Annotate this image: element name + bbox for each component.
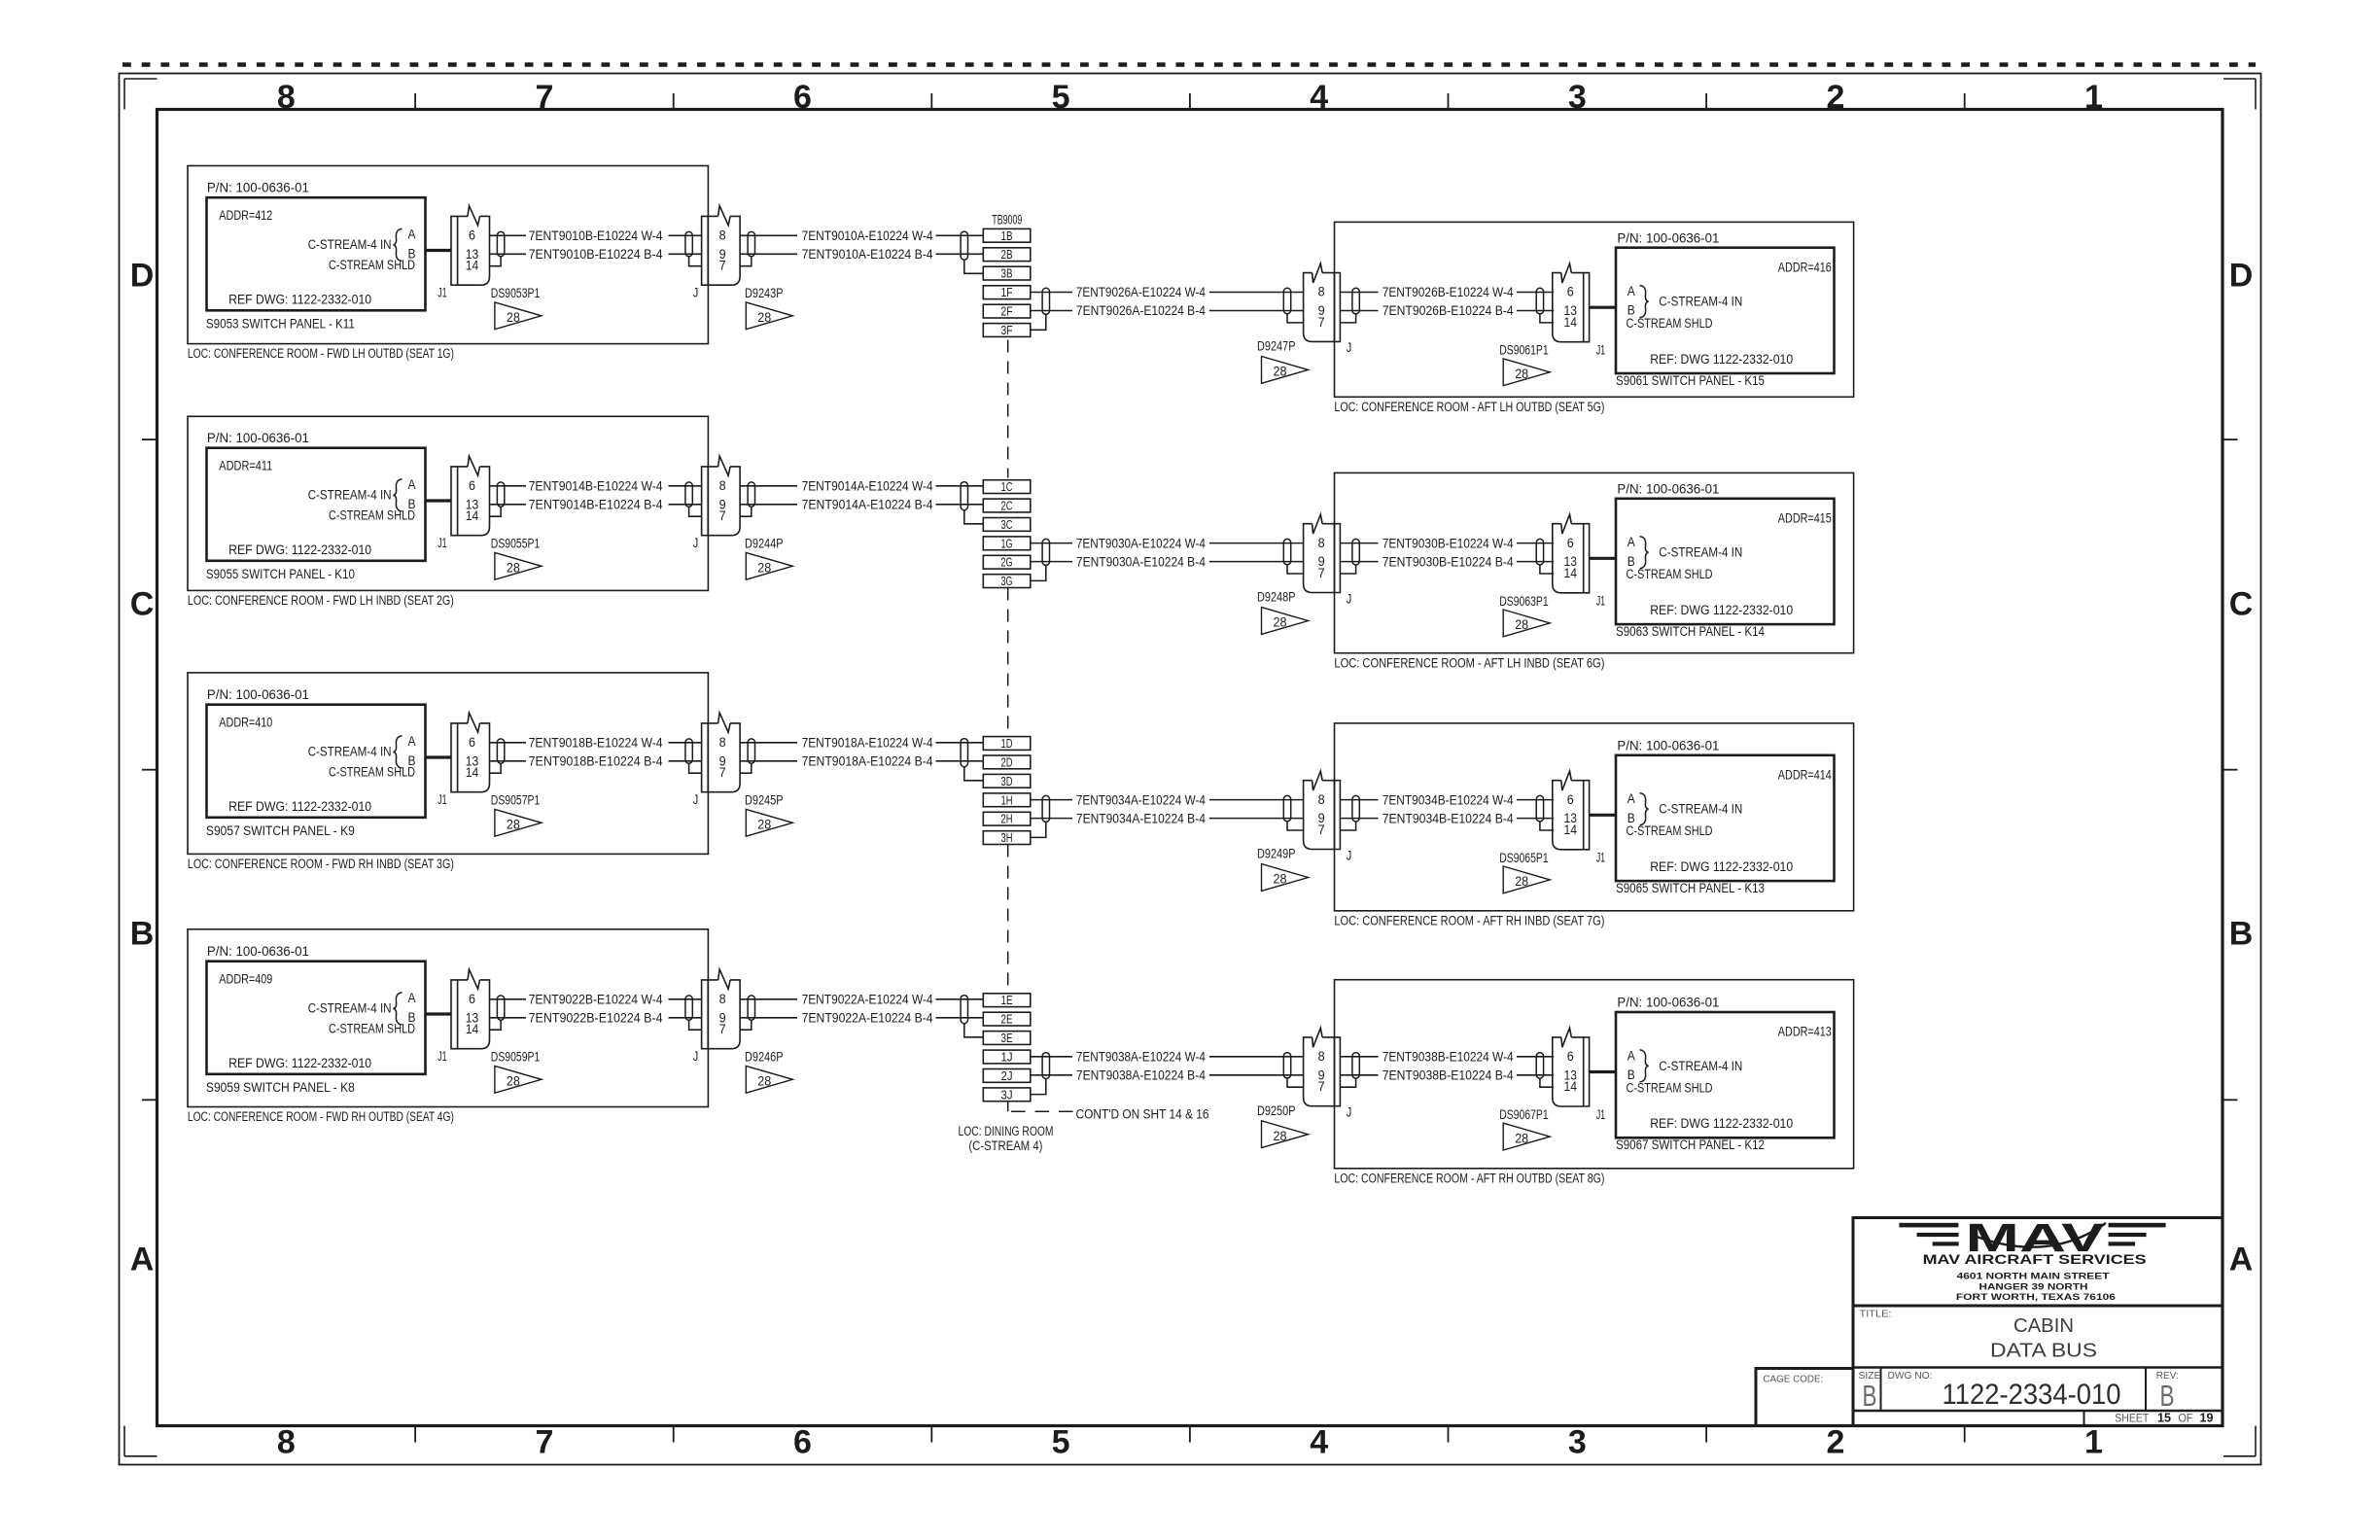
plug designator D9244P — [745, 537, 784, 551]
S9061 signal name C-STREAM SHLD — [1627, 316, 1713, 331]
svg-text:LOC: CONFERENCE ROOM - FWD RH: LOC: CONFERENCE ROOM - FWD RH INBD (SEAT… — [188, 857, 454, 871]
wire B-4 segment into terminal block — [936, 760, 984, 762]
row letters right — [2229, 258, 2254, 1278]
svg-text:J: J — [693, 1049, 699, 1064]
S9055 ref drawing label — [228, 542, 371, 557]
svg-text:7ENT9038A-E10224 B-4: 7ENT9038A-E10224 B-4 — [1076, 1068, 1206, 1083]
shield oval at terminal block (left side) — [961, 996, 967, 1024]
svg-text:P/N: 100-0636-01: P/N: 100-0636-01 — [207, 181, 309, 195]
wire 7ENT9038A-E10224 W-4 segment from terminal 1 — [1031, 1056, 1072, 1058]
svg-text:DS9057P1: DS9057P1 — [491, 793, 541, 808]
svg-text:14: 14 — [466, 259, 479, 273]
svg-text:1E: 1E — [1001, 994, 1013, 1007]
wire W-4 segment into J — [669, 234, 702, 236]
dashed bus trunk segment 1 (between 3F and 1C) — [1007, 340, 1009, 478]
wire B-4 segment into terminal block — [936, 1017, 984, 1019]
svg-text:7: 7 — [719, 765, 726, 780]
svg-text:1H: 1H — [1001, 793, 1013, 807]
corner crop mark top-left — [124, 79, 157, 110]
wire 7ENT9038B-E10224 B-4 segment from J — [1340, 1074, 1378, 1076]
S9067 address label ADDR=413 — [1778, 1025, 1832, 1039]
switch panel unit S9057 outline — [188, 673, 708, 855]
svg-text:28: 28 — [1515, 874, 1528, 889]
svg-text:J: J — [1347, 591, 1352, 606]
svg-text:7ENT9034B-E10224 W-4: 7ENT9034B-E10224 W-4 — [1382, 792, 1514, 807]
switch panel unit S9061 outline — [1335, 222, 1854, 397]
svg-text:C-STREAM SHLD: C-STREAM SHLD — [1627, 1080, 1713, 1095]
wire label 7ENT9014B-E10224 B-4 — [529, 498, 663, 512]
svg-text:7: 7 — [1318, 566, 1325, 580]
svg-text:7ENT9022B-E10224 B-4: 7ENT9022B-E10224 B-4 — [529, 1011, 663, 1026]
rev cell divider — [2145, 1368, 2147, 1412]
svg-text:4: 4 — [1310, 1424, 1328, 1461]
svg-text:7ENT9010A-E10224 B-4: 7ENT9010A-E10224 B-4 — [802, 247, 933, 262]
svg-text:14: 14 — [466, 1022, 479, 1036]
zone numbers bottom — [277, 1424, 2103, 1461]
svg-text:DATA BUS: DATA BUS — [1990, 1340, 2097, 1361]
svg-text:8: 8 — [719, 992, 726, 1006]
shield drain hook from J pin 7 — [1340, 565, 1355, 574]
wire label 7ENT9038B-E10224 W-4 — [1382, 1050, 1514, 1065]
connector J1 (DS9053P1) of S9053 — [451, 206, 490, 286]
svg-text:7: 7 — [535, 79, 553, 116]
S9053 ref drawing label — [228, 293, 371, 307]
svg-text:28: 28 — [757, 561, 771, 576]
svg-text:6: 6 — [793, 79, 812, 116]
shield drain hook pin 14 of J1 — [490, 507, 501, 516]
S9053 signal name C-STREAM SHLD — [329, 258, 415, 272]
shield oval at terminal block (left side) — [961, 739, 967, 767]
svg-text:7ENT9018B-E10224 W-4: 7ENT9018B-E10224 W-4 — [529, 736, 663, 751]
svg-text:C-STREAM SHLD: C-STREAM SHLD — [329, 1022, 415, 1036]
plug designator D9246P — [745, 1050, 784, 1065]
shield drain hook into terminal 3 — [964, 767, 984, 781]
wire label 7ENT9038A-E10224 B-4 — [1076, 1068, 1206, 1083]
svg-text:28: 28 — [1274, 615, 1287, 630]
shield oval left of J — [1283, 539, 1290, 564]
svg-text:3F: 3F — [1001, 324, 1013, 337]
wire label 7ENT9022B-E10224 B-4 — [529, 1011, 663, 1026]
connector J (D9247P) of S9061 — [1304, 263, 1341, 341]
connector J designator — [1347, 591, 1352, 606]
svg-text:S9065 SWITCH PANEL - K13: S9065 SWITCH PANEL - K13 — [1616, 881, 1765, 895]
S9061 name label — [1616, 373, 1765, 388]
plug designator D9247P — [1257, 339, 1296, 354]
svg-text:D9247P: D9247P — [1257, 339, 1296, 354]
svg-text:14: 14 — [1564, 315, 1578, 330]
svg-text:ADDR=415: ADDR=415 — [1778, 510, 1832, 525]
svg-text:A: A — [1627, 791, 1635, 806]
shield drain hook from J pin 7 — [1340, 1078, 1355, 1087]
plug designator D9249P — [1257, 847, 1296, 861]
wire label 7ENT9034B-E10224 W-4 — [1382, 792, 1514, 807]
connector J1 designator — [437, 792, 447, 807]
svg-text:LOC: CONFERENCE ROOM - FWD RH: LOC: CONFERENCE ROOM - FWD RH OUTBD (SEA… — [188, 1109, 454, 1124]
connector J1 (DS9067P1) of S9067 — [1553, 1028, 1590, 1106]
svg-text:ADDR=411: ADDR=411 — [219, 458, 272, 472]
wire B-4 segment into J — [669, 760, 702, 762]
svg-text:DS9059P1: DS9059P1 — [491, 1050, 541, 1065]
svg-text:S9053 SWITCH PANEL - K11: S9053 SWITCH PANEL - K11 — [206, 317, 355, 332]
svg-text:D9246P: D9246P — [745, 1050, 784, 1065]
plug designator DS9067P1 — [1499, 1107, 1549, 1122]
switch panel unit S9059 outline — [188, 929, 708, 1107]
wire B-4 segment into J plug — [1209, 818, 1304, 820]
S9053 bundled pair stub wire — [426, 249, 452, 252]
svg-text:1F: 1F — [1001, 286, 1013, 299]
shield drain hook from J pin 7 to cable — [740, 763, 752, 773]
S9065 node B — [1627, 811, 1635, 825]
S9055 address label ADDR=411 — [219, 458, 272, 472]
svg-text:7ENT9038A-E10224 W-4: 7ENT9038A-E10224 W-4 — [1076, 1050, 1206, 1065]
shield drain hook from J pin 7 to cable — [740, 1020, 752, 1030]
svg-text:ADDR=412: ADDR=412 — [219, 208, 272, 223]
S9057 bundled pair stub wire — [426, 755, 452, 758]
svg-text:7ENT9010B-E10224 W-4: 7ENT9010B-E10224 W-4 — [529, 228, 663, 243]
terminal 1C of TB9009 — [983, 480, 1031, 494]
shield drain hook from terminal 3 — [1031, 822, 1046, 837]
connector J1 designator — [437, 1049, 447, 1064]
terminal 2F of TB9009 — [983, 304, 1031, 318]
svg-text:7: 7 — [535, 1424, 553, 1461]
wire label 7ENT9026A-E10224 B-4 — [1076, 303, 1206, 318]
wire label 7ENT9014A-E10224 B-4 — [802, 498, 933, 512]
S9059 address label ADDR=409 — [219, 971, 272, 986]
svg-text:7ENT9026A-E10224 W-4: 7ENT9026A-E10224 W-4 — [1076, 285, 1206, 299]
corner crop mark top-right — [2223, 79, 2256, 110]
plug designator D9250P — [1257, 1103, 1296, 1118]
S9061 bundled pair stub wire — [1590, 306, 1616, 309]
plug designator D9243P — [745, 286, 784, 300]
connector J1 designator — [1596, 343, 1606, 358]
wire 7ENT9034B-E10224 B-4 segment from J — [1340, 818, 1378, 820]
svg-text:P/N: 100-0636-01: P/N: 100-0636-01 — [1617, 996, 1719, 1010]
svg-text:28: 28 — [1274, 365, 1287, 379]
svg-text:S9055 SWITCH PANEL - K10: S9055 SWITCH PANEL - K10 — [206, 567, 355, 581]
terminal 1E of TB9009 — [983, 994, 1031, 1007]
wire 7ENT9022A-E10224 B-4 segment from J — [740, 1017, 797, 1019]
company name MAV AIRCRAFT SERVICES — [1923, 1252, 2147, 1267]
wire label 7ENT9034A-E10224 W-4 — [1076, 792, 1206, 807]
dwg no label — [1888, 1370, 1933, 1382]
shield drain hook from J pin 7 to cable — [740, 257, 752, 266]
svg-text:7ENT9014A-E10224 W-4: 7ENT9014A-E10224 W-4 — [802, 479, 933, 494]
connector J (D9243P) of S9053 — [702, 206, 741, 286]
wire B-4 segment into J — [669, 504, 702, 506]
svg-text:LOC: CONFERENCE ROOM - AFT LH: LOC: CONFERENCE ROOM - AFT LH INBD (SEAT… — [1334, 655, 1604, 670]
svg-text:15: 15 — [2157, 1410, 2171, 1424]
S9057 ref drawing label — [228, 799, 371, 814]
svg-text:28: 28 — [757, 310, 771, 325]
switch panel unit S9055 outline — [188, 416, 708, 590]
S9055 signal name C-STREAM-4 IN — [308, 488, 392, 503]
shield drain hook from J pin 7 — [1340, 822, 1355, 830]
wire W-4 segment into J — [669, 485, 702, 487]
wire B-4 segment into J plug — [1209, 561, 1304, 563]
wire 7ENT9030B-E10224 W-4 segment from J — [1340, 542, 1378, 544]
connector J1 (DS9057P1) of S9057 — [451, 713, 490, 792]
size cell divider — [1880, 1368, 1882, 1412]
svg-text:J: J — [693, 286, 699, 300]
svg-text:C-STREAM SHLD: C-STREAM SHLD — [329, 765, 415, 780]
plug designator DS9053P1 — [491, 286, 541, 300]
shield drain hook into J pin 7 — [689, 1020, 702, 1030]
wire B-4 segment into terminal block — [936, 253, 984, 255]
svg-text:ADDR=409: ADDR=409 — [219, 971, 272, 986]
wire W-4 segment into terminal block — [936, 485, 984, 487]
svg-text:28: 28 — [1274, 1129, 1287, 1143]
connector J designator — [693, 286, 699, 300]
wire gauge flag 28 at DS9059P1 — [495, 1066, 542, 1093]
wire label 7ENT9030A-E10224 B-4 — [1076, 554, 1206, 569]
drawing title line 1 CABIN — [2013, 1315, 2074, 1337]
svg-text:7ENT9034A-E10224 W-4: 7ENT9034A-E10224 W-4 — [1076, 792, 1206, 807]
terminal 2B of TB9009 — [983, 248, 1031, 262]
shield oval left of J (D9244P) — [685, 482, 692, 507]
S9065 location note — [1334, 913, 1604, 927]
wire W-4 segment into J plug — [1209, 292, 1304, 294]
svg-text:SHEET: SHEET — [2115, 1411, 2150, 1424]
wire 7ENT9010A-E10224 B-4 segment from J — [740, 253, 797, 255]
wire label 7ENT9030A-E10224 W-4 — [1076, 536, 1206, 550]
zone boundary ticks top — [415, 93, 1965, 110]
connector J1 designator — [1596, 851, 1606, 865]
svg-text:1J: 1J — [1001, 1051, 1013, 1065]
wire 7ENT9010B-E10224 W-4 segment from J1 — [490, 234, 526, 236]
svg-text:1G: 1G — [1001, 537, 1013, 550]
svg-text:28: 28 — [757, 818, 771, 832]
svg-text:28: 28 — [507, 561, 520, 576]
wire gauge flag 28 at DS9063P1 — [1503, 610, 1550, 637]
S9061 node A — [1627, 284, 1635, 298]
wire label 7ENT9018B-E10224 W-4 — [529, 736, 663, 751]
zone boundary ticks bottom — [415, 1426, 1965, 1443]
wire 7ENT9014B-E10224 B-4 segment from J1 — [490, 504, 526, 506]
S9057 brace for A/B pair — [393, 736, 402, 768]
svg-text:3J: 3J — [1001, 1088, 1013, 1102]
svg-text:REF DWG: 1122-2332-010: REF DWG: 1122-2332-010 — [228, 1056, 371, 1070]
svg-text:J: J — [693, 536, 699, 550]
svg-text:DS9063P1: DS9063P1 — [1499, 594, 1549, 609]
plug designator D9245P — [745, 793, 784, 808]
S9063 bundled pair stub wire — [1590, 557, 1616, 560]
shield oval at terminal block (right side) — [1042, 539, 1049, 565]
svg-text:P/N: 100-0636-01: P/N: 100-0636-01 — [1617, 230, 1719, 245]
S9067 ref drawing label — [1650, 1116, 1793, 1131]
svg-text:J: J — [1347, 848, 1352, 862]
svg-text:D9250P: D9250P — [1257, 1103, 1296, 1118]
wire label 7ENT9034B-E10224 B-4 — [1382, 811, 1514, 825]
svg-text:D9243P: D9243P — [745, 286, 784, 300]
svg-text:6: 6 — [1567, 1049, 1574, 1064]
terminal 3H of TB9009 — [983, 831, 1031, 845]
wire B-4 segment into terminal block — [936, 504, 984, 506]
shield oval at terminal block (right side) — [1042, 288, 1049, 314]
svg-text:2G: 2G — [1001, 556, 1013, 570]
S9065 brace for A/B pair — [1640, 793, 1649, 825]
S9067 name label — [1616, 1137, 1765, 1152]
svg-text:C-STREAM SHLD: C-STREAM SHLD — [329, 258, 415, 272]
svg-text:28: 28 — [1515, 367, 1528, 381]
plug designator DS9057P1 — [491, 793, 541, 808]
svg-text:LOC: CONFERENCE ROOM - AFT RH: LOC: CONFERENCE ROOM - AFT RH INBD (SEAT… — [1334, 913, 1604, 927]
terminal 1J of TB9009 — [983, 1050, 1031, 1064]
note CONT'D ON SHT 14 & 16 — [1076, 1106, 1209, 1121]
svg-text:TB9009: TB9009 — [992, 213, 1022, 227]
connector J1 (DS9061P1) of S9061 — [1553, 263, 1590, 342]
shield oval left of J — [1283, 288, 1290, 313]
terminal 2C of TB9009 — [983, 499, 1031, 512]
S9053 location note — [188, 346, 454, 361]
svg-text:7ENT9026A-E10224 B-4: 7ENT9026A-E10224 B-4 — [1076, 303, 1206, 318]
svg-text:1: 1 — [2084, 79, 2103, 116]
zone numbers top — [277, 79, 2103, 116]
wire W-4 segment into terminal block — [936, 234, 984, 236]
shield drain hook from terminal 3 — [1031, 314, 1046, 330]
svg-text:MAV AIRCRAFT SERVICES: MAV AIRCRAFT SERVICES — [1923, 1252, 2147, 1267]
wire 7ENT9026A-E10224 B-4 segment from terminal 2 — [1031, 310, 1072, 312]
shield drain hook from J pin 7 — [1340, 314, 1355, 323]
svg-text:3G: 3G — [1001, 575, 1013, 588]
shield oval left of J1 — [1536, 539, 1543, 565]
sheet cell divider — [2083, 1411, 2085, 1426]
svg-text:28: 28 — [757, 1074, 771, 1089]
shield oval at terminal block (left side) — [961, 482, 967, 510]
wire label 7ENT9018A-E10224 W-4 — [802, 736, 933, 751]
svg-text:D: D — [2229, 258, 2254, 295]
svg-text:6: 6 — [1567, 536, 1574, 550]
shield drain hook from cable into J pin 7 — [1287, 565, 1304, 574]
svg-text:14: 14 — [1564, 822, 1578, 837]
svg-text:2: 2 — [1826, 1424, 1844, 1461]
size label — [1859, 1370, 1881, 1382]
terminal 3D of TB9009 — [983, 774, 1031, 787]
svg-text:8: 8 — [1318, 536, 1325, 550]
svg-text:7ENT9018A-E10224 B-4: 7ENT9018A-E10224 B-4 — [802, 754, 933, 769]
terminal 2E of TB9009 — [983, 1012, 1031, 1026]
svg-text:C-STREAM SHLD: C-STREAM SHLD — [1627, 823, 1713, 838]
title block logo cell divider — [1853, 1305, 2222, 1308]
svg-text:LOC: CONFERENCE ROOM - AFT RH: LOC: CONFERENCE ROOM - AFT RH OUTBD (SEA… — [1334, 1171, 1604, 1185]
svg-text:LOC: DINING ROOM: LOC: DINING ROOM — [959, 1124, 1054, 1138]
svg-text:C-STREAM-4 IN: C-STREAM-4 IN — [1659, 1059, 1742, 1073]
svg-text:2J: 2J — [1001, 1069, 1013, 1083]
svg-text:DS9053P1: DS9053P1 — [491, 286, 541, 300]
svg-text:14: 14 — [1564, 1079, 1578, 1094]
S9061 ref drawing label — [1650, 352, 1793, 367]
shield drain hook into J pin 7 — [689, 507, 702, 516]
svg-text:CABIN: CABIN — [2013, 1315, 2074, 1337]
svg-text:2: 2 — [1826, 79, 1844, 116]
svg-text:8: 8 — [719, 735, 726, 750]
S9057 address label ADDR=410 — [219, 715, 272, 729]
shield drain hook into J1 pin 14 — [1540, 565, 1554, 574]
connector J1 (DS9059P1) of S9059 — [451, 969, 490, 1049]
wire 7ENT9014A-E10224 B-4 segment from J — [740, 504, 797, 506]
svg-text:8: 8 — [719, 228, 726, 243]
switch panel unit S9053 outline — [188, 166, 708, 344]
svg-text:TITLE:: TITLE: — [1860, 1309, 1892, 1320]
svg-text:2B: 2B — [1001, 248, 1013, 262]
svg-text:CAGE CODE:: CAGE CODE: — [1763, 1374, 1823, 1385]
svg-text:7ENT9022A-E10224 B-4: 7ENT9022A-E10224 B-4 — [802, 1011, 933, 1026]
svg-text:REF: DWG 1122-2332-010: REF: DWG 1122-2332-010 — [1650, 603, 1793, 617]
wire 7ENT9030B-E10224 B-4 segment from J — [1340, 561, 1378, 563]
wire label 7ENT9022A-E10224 W-4 — [802, 993, 933, 1007]
svg-text:C-STREAM-4 IN: C-STREAM-4 IN — [1659, 295, 1742, 309]
S9065 signal name C-STREAM-4 IN — [1659, 802, 1742, 817]
wire 7ENT9022B-E10224 B-4 segment from J1 — [490, 1017, 526, 1019]
shield drain hook into terminal 3 — [964, 260, 984, 273]
S9055 name label — [206, 567, 355, 581]
wire 7ENT9034B-E10224 W-4 segment from J — [1340, 799, 1378, 801]
shield oval at terminal block (right side) — [1042, 795, 1049, 822]
terminal 1H of TB9009 — [983, 793, 1031, 807]
wire W-4 segment into J1 — [1517, 799, 1554, 801]
svg-text:A: A — [408, 991, 416, 1005]
terminal 1B of TB9009 — [983, 228, 1031, 242]
svg-text:3H: 3H — [1001, 831, 1013, 845]
shield drain hook from cable into J pin 7 — [1287, 1078, 1304, 1087]
wire gauge flag 28 at D9248P — [1262, 608, 1309, 635]
connector J (D9246P) of S9059 — [702, 969, 741, 1049]
rev value B — [2160, 1379, 2175, 1413]
wire 7ENT9026B-E10224 W-4 segment from J — [1340, 292, 1378, 294]
S9061 brace for A/B pair — [1640, 286, 1649, 318]
shield oval at J1 of S9053 — [497, 231, 504, 256]
S9065 bundled pair stub wire — [1590, 814, 1616, 817]
svg-text:28: 28 — [1515, 1131, 1528, 1145]
wire W-4 segment into terminal block — [936, 998, 984, 1000]
wire label 7ENT9034A-E10224 B-4 — [1076, 811, 1206, 825]
svg-text:1C: 1C — [1001, 480, 1013, 494]
svg-text:7ENT9010B-E10224 B-4: 7ENT9010B-E10224 B-4 — [529, 247, 663, 262]
divider below dwg row — [1853, 1410, 2222, 1412]
S9057 signal name C-STREAM-4 IN — [308, 745, 392, 759]
cage code box — [1756, 1369, 1853, 1426]
svg-text:LOC: CONFERENCE ROOM - FWD LH: LOC: CONFERENCE ROOM - FWD LH INBD (SEAT… — [188, 593, 454, 608]
svg-text:C-STREAM SHLD: C-STREAM SHLD — [329, 508, 415, 523]
svg-text:B: B — [1863, 1379, 1877, 1413]
svg-text:DS9055P1: DS9055P1 — [491, 537, 541, 551]
terminal 3J of TB9009 — [983, 1088, 1031, 1102]
S9061 node B — [1627, 303, 1635, 318]
svg-text:6: 6 — [1567, 285, 1574, 299]
svg-text:5: 5 — [1052, 1424, 1070, 1461]
wire 7ENT9030A-E10224 W-4 segment from terminal 1 — [1031, 542, 1072, 544]
S9067 location note — [1334, 1171, 1604, 1185]
wire label 7ENT9022B-E10224 W-4 — [529, 993, 663, 1007]
shield drain hook into J1 pin 14 — [1540, 1078, 1554, 1087]
svg-text:7: 7 — [719, 508, 726, 523]
svg-text:A: A — [2229, 1242, 2254, 1278]
shield oval left of J — [1283, 795, 1290, 821]
shield oval right of J — [1352, 1053, 1359, 1079]
svg-text:A: A — [1627, 1048, 1635, 1063]
shield drain hook from J pin 7 to cable — [740, 507, 752, 516]
svg-text:19: 19 — [2200, 1410, 2214, 1424]
terminal 2H of TB9009 — [983, 812, 1031, 825]
svg-text:7: 7 — [1318, 1079, 1325, 1094]
svg-text:DWG NO:: DWG NO: — [1888, 1370, 1933, 1382]
svg-text:2E: 2E — [1001, 1013, 1013, 1027]
S9053 signal name C-STREAM-4 IN — [308, 237, 392, 252]
svg-text:7ENT9034B-E10224 B-4: 7ENT9034B-E10224 B-4 — [1382, 811, 1514, 825]
svg-text:7ENT9026B-E10224 B-4: 7ENT9026B-E10224 B-4 — [1382, 303, 1514, 318]
S9065 node A — [1627, 791, 1635, 806]
svg-text:OF: OF — [2179, 1411, 2193, 1424]
MAV logo swoosh — [1977, 1223, 2106, 1247]
